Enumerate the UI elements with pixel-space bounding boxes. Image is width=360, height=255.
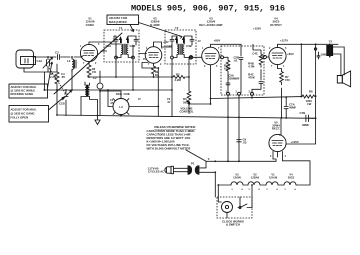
svg-text:500K: 500K (183, 100, 191, 104)
svg-text:220MMF: 220MMF (228, 76, 239, 80)
L3 osc coil (113, 99, 129, 115)
svg-text:T1: T1 (119, 26, 123, 30)
svg-text:C3: C3 (55, 51, 59, 55)
wire AVC line A y=77 with resistor R2 in series (88, 76, 189, 78)
grid cap C2 (97, 83, 103, 89)
adjust 455 box (107, 15, 139, 25)
heater string (218, 184, 231, 186)
plug wiring (200, 161, 216, 197)
trimmer C1A (47, 60, 50, 67)
wire AC line y=161 (206, 160, 276, 162)
node terminal 5 (189, 56, 192, 59)
capacitor C7B series in rail D (306, 115, 309, 122)
svg-text:470K: 470K (248, 75, 256, 79)
wire screen line y=98.5 (211, 97, 303, 99)
resistor R4A vertical (226, 57, 230, 93)
V3 tube (202, 47, 220, 65)
couplate bottom terminals (227, 92, 230, 95)
middle vertical with C5B (239, 44, 243, 93)
svg-text:150: 150 (285, 78, 290, 82)
gang dashed link (49, 68, 66, 94)
svg-text:0V: 0V (143, 58, 146, 61)
T1 side caps (114, 40, 118, 42)
svg-text:T2: T2 (175, 26, 179, 30)
svg-text:+117V: +117V (280, 39, 288, 43)
svg-text:CONTROL: CONTROL (179, 109, 193, 113)
svg-text:.05: .05 (243, 141, 247, 145)
left callout box 1 (9, 84, 48, 98)
svg-text:OSC. COIL: OSC. COIL (116, 92, 131, 96)
V1 internal elements (84, 51, 95, 56)
svg-text:50C5: 50C5 (288, 176, 295, 180)
capacitor C9 line bypass (237, 117, 242, 161)
svg-text:MODELS 905, 906, 907, 915, 91: MODELS 905, 906, 907, 915, 916 (131, 3, 285, 13)
resistor R1 (55, 64, 59, 90)
V4 tube (269, 47, 286, 64)
resistor R2 (173, 76, 185, 79)
V2 tube (145, 47, 162, 64)
svg-text:+85V: +85V (163, 41, 169, 44)
ground arrow (95, 116, 100, 125)
couplate dashed box (221, 46, 264, 95)
resistor V1 cathode (87, 62, 91, 77)
couplate input terminal (221, 56, 224, 59)
loop antenna L1 (16, 50, 34, 68)
svg-text:12AV6: 12AV6 (233, 176, 241, 180)
long diagonal leader (54, 33, 122, 94)
wire V1 plate (89, 42, 104, 44)
junction dots left (44, 89, 46, 91)
svg-text:+100V: +100V (100, 50, 107, 53)
svg-text:& SWITCH: & SWITCH (226, 223, 240, 227)
svg-text:IF AMP.: IF AMP. (150, 23, 160, 27)
capacitor C10 (317, 52, 320, 59)
svg-text:L2: L2 (67, 59, 71, 63)
V5 pin wires (273, 151, 283, 160)
svg-text:ROCKING GANG: ROCKING GANG (11, 92, 35, 96)
svg-text:2.2M: 2.2M (175, 78, 182, 82)
svg-text:12BA6: 12BA6 (251, 176, 260, 180)
svg-text:R2: R2 (176, 73, 180, 77)
volume control pot (187, 59, 191, 114)
svg-text:C3B: C3B (130, 44, 136, 48)
svg-text:+80V: +80V (287, 52, 294, 56)
osc feedback transformer (85, 85, 87, 97)
left callout box 2 (9, 106, 49, 123)
svg-text:1W: 1W (307, 102, 312, 106)
resistor R4B vertical right (253, 44, 263, 80)
switch S1 (240, 204, 252, 208)
svg-text:30MF: 30MF (302, 123, 310, 127)
wire V3 grid (193, 56, 202, 58)
svg-text:4.7M: 4.7M (248, 64, 255, 68)
svg-text:RECT.: RECT. (272, 127, 280, 131)
T1 wiring (104, 36, 136, 58)
svg-text:C4B: C4B (186, 44, 192, 48)
svg-text:-1V: -1V (197, 40, 201, 43)
wire V2 screen return (142, 63, 158, 116)
svg-text:OUTPUT: OUTPUT (270, 23, 282, 27)
wire antenna to V1 grid y=57 (33, 56, 81, 58)
wire B+ vertical x=315.6 (315, 44, 317, 92)
svg-text:L3: L3 (119, 105, 123, 109)
T1 slugs (119, 36, 122, 43)
svg-text:12AU6: 12AU6 (269, 176, 278, 180)
svg-text:.05: .05 (61, 75, 65, 79)
speaker (333, 47, 344, 76)
clock motor M (222, 202, 233, 213)
wire V2 plate (154, 42, 166, 47)
svg-text:150: 150 (92, 71, 97, 74)
svg-text:+110V: +110V (253, 27, 261, 31)
heater labels (233, 173, 295, 180)
svg-text:+80V: +80V (214, 39, 221, 43)
wire screen feed x=301.3 (300, 44, 302, 96)
V5 tube (269, 134, 286, 151)
T1 windings (121, 44, 123, 54)
resistor V2 cathode (152, 63, 156, 77)
wire V3 plate (211, 44, 242, 47)
svg-text:FULLY OPEN: FULLY OPEN (11, 116, 29, 120)
T2 IF transformer dashed box (165, 30, 196, 64)
svg-text:6.8M: 6.8M (224, 66, 231, 70)
capacitor C5A (226, 83, 230, 85)
svg-text:T3: T3 (329, 40, 333, 44)
capacitor R4C/C (252, 82, 263, 94)
svg-text:C1A: C1A (37, 59, 43, 63)
V1 tube 12AU6 (80, 44, 97, 61)
trimmer C1B (65, 90, 67, 116)
notes block (147, 125, 196, 150)
svg-text:MAX@455KC: MAX@455KC (109, 20, 127, 24)
wire wiper line y=104 (189, 103, 211, 105)
T1 IF transformer dashed box (104, 30, 139, 62)
svg-text:C7B: C7B (300, 111, 306, 115)
resistor R7 cathode (278, 65, 284, 85)
leaders from callouts (48, 62, 53, 88)
svg-text:CONV.: CONV. (86, 23, 95, 27)
resistor R6 (302, 95, 316, 98)
svg-text:C2: C2 (93, 76, 97, 80)
svg-text:40MF: 40MF (289, 105, 297, 109)
clock works box (217, 197, 252, 218)
svg-text:P1: P1 (191, 161, 195, 165)
heater pin numbers (231, 188, 296, 191)
svg-text:C4A: C4A (167, 44, 173, 48)
wire plate rail y=44.3 (278, 43, 339, 46)
wire left riser (43, 72, 45, 90)
svg-text:WITH 20,000 OHM/VOLT METER: WITH 20,000 OHM/VOLT METER (147, 146, 192, 150)
capacitor C3 (58, 55, 60, 60)
svg-text:C1B: C1B (59, 102, 65, 106)
wire V3 cathode (210, 65, 212, 104)
svg-text:DET.-AUDIO AMP.: DET.-AUDIO AMP. (199, 23, 223, 27)
svg-text:C4C: C4C (252, 51, 258, 55)
svg-text:100MMF: 100MMF (321, 53, 332, 57)
leader arrows 455 (130, 25, 134, 32)
wire L3 row line C (108, 106, 158, 108)
svg-text:R6: R6 (309, 90, 313, 94)
misc tiny labels (80, 40, 287, 161)
wire riser B to D (56, 90, 58, 115)
wire rail B y=90 (44, 89, 172, 91)
svg-text:+125V: +125V (291, 140, 299, 144)
wire main B- rail D (57, 115, 316, 118)
svg-text:CYCLES AC: CYCLES AC (148, 170, 164, 174)
svg-text:.01: .01 (234, 58, 238, 62)
V3 grid to V4 (263, 55, 266, 58)
coil L2 (72, 57, 74, 72)
